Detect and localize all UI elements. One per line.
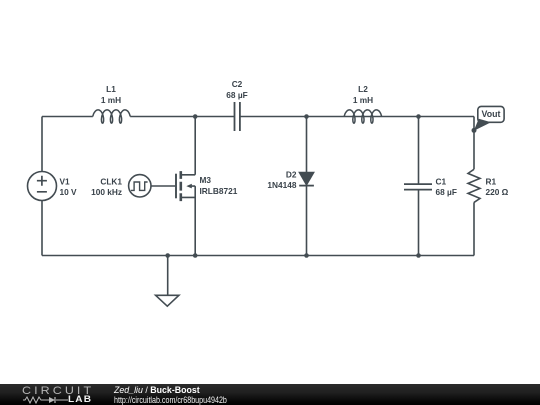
node dot gnd	[165, 253, 170, 258]
wire gate	[151, 185, 175, 187]
svg-text:R1: R1	[486, 177, 497, 187]
node dot C1 top	[416, 114, 421, 119]
logo squiggle	[23, 396, 69, 404]
diode D2	[306, 117, 308, 256]
transistor M3	[175, 174, 177, 199]
node dot M3 top	[193, 114, 198, 119]
svg-text:10 V: 10 V	[60, 187, 78, 197]
ground	[156, 256, 179, 307]
svg-text:C1: C1	[436, 177, 447, 187]
source V1	[28, 172, 57, 201]
inductor L1	[93, 110, 130, 123]
node dot D2 top	[304, 114, 309, 119]
footer url	[114, 394, 227, 405]
node dot M3 bottom	[193, 253, 198, 258]
resistor R1	[468, 169, 480, 202]
capacitor C1	[418, 117, 420, 256]
footer title	[114, 384, 200, 395]
svg-text:68 µF: 68 µF	[436, 187, 457, 197]
svg-text:V1: V1	[60, 177, 71, 187]
wire top	[42, 116, 474, 118]
svg-text:68 µF: 68 µF	[226, 90, 247, 100]
svg-text:IRLB8721: IRLB8721	[200, 186, 238, 196]
logo LAB	[68, 394, 92, 405]
wire bottom	[42, 255, 474, 257]
svg-text:D2: D2	[286, 170, 297, 180]
flag Vout box	[478, 106, 504, 122]
svg-text:C2: C2	[232, 79, 243, 89]
wire right vertical	[473, 117, 475, 256]
footer bar	[0, 384, 540, 405]
svg-text:CLK1: CLK1	[100, 177, 122, 187]
clock CLK1	[129, 175, 151, 197]
node dot D2 bottom	[304, 253, 309, 258]
svg-text:1 mH: 1 mH	[353, 95, 373, 105]
svg-text:M3: M3	[200, 175, 212, 185]
inductor L2	[344, 110, 381, 123]
svg-text:100 kHz: 100 kHz	[91, 187, 122, 197]
svg-text:L1: L1	[106, 84, 116, 94]
svg-text:1 mH: 1 mH	[101, 95, 121, 105]
svg-text:1N4148: 1N4148	[267, 180, 296, 190]
node dot Vout	[472, 128, 477, 133]
svg-text:Vout: Vout	[482, 109, 501, 119]
svg-text:L2: L2	[358, 84, 368, 94]
logo CIRCUIT	[22, 385, 94, 397]
wire left vertical	[41, 117, 43, 256]
svg-text:220 Ω: 220 Ω	[486, 187, 509, 197]
node dot C1 bottom	[416, 253, 421, 258]
capacitor C2	[235, 102, 240, 131]
